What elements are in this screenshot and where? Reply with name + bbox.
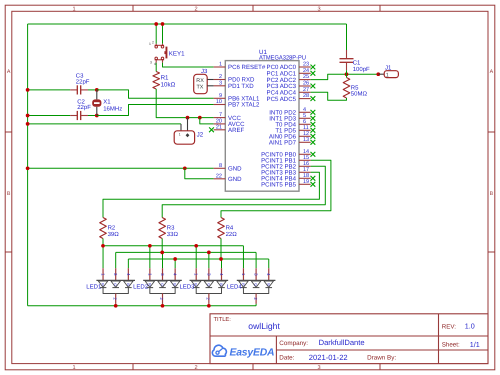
pin 14 PCINT0 PB0 of U1 (261, 149, 315, 159)
pin 8 GND of U1 (214, 163, 243, 173)
LED LED3 (RGB, common cathode) (190, 268, 229, 304)
svg-text:1/1: 1/1 (470, 340, 480, 349)
node junction GND on rail (26, 166, 30, 170)
wire GND tee to U1 pin22 (185, 168, 214, 179)
wire drop bus3 to LED4 pin4 (268, 259, 270, 268)
svg-text:27: 27 (303, 87, 309, 93)
svg-text:22: 22 (216, 173, 222, 179)
pin 1 PC6 RESET# of U1 (214, 62, 266, 72)
svg-text:LED1: LED1 (86, 284, 102, 291)
svg-text:2: 2 (159, 297, 164, 300)
wire drop bus3 to LED2 pin4 (174, 259, 176, 268)
svg-text:GND: GND (228, 176, 242, 183)
svg-text:LED3: LED3 (179, 284, 195, 291)
crystal X1 (92, 90, 101, 116)
svg-text:33Ω: 33Ω (167, 231, 179, 238)
wire GND bottom LED bus (28, 305, 257, 307)
wire GND rail to C2 (28, 115, 71, 117)
wire drop bus2 to LED4 pin3 (255, 252, 257, 268)
pin 27 PC4 ADC4 of U1 (267, 87, 311, 97)
svg-text:2: 2 (194, 7, 197, 13)
wire green bus R3 to LED pin3 drops (116, 251, 256, 253)
svg-text:G: G (160, 283, 164, 286)
svg-text:10: 10 (216, 99, 222, 105)
op-amp U1 ATMEGA328P-PU body (225, 61, 299, 192)
svg-text:24: 24 (303, 68, 309, 74)
svg-text:2: 2 (219, 74, 222, 80)
pin 28 PC5 ADC5 of U1 (267, 93, 316, 103)
pin 17 PCINT3 PB3 of U1 (261, 167, 311, 177)
wire red bus R2 to LED pin1 drops (103, 245, 243, 247)
connector J2 (174, 118, 194, 145)
svg-text:LED2: LED2 (133, 284, 149, 291)
node junction VCC / J2 pin2 (186, 116, 190, 120)
svg-text:TX: TX (197, 84, 204, 90)
pin 12 AIN0 PD6 of U1 (269, 131, 315, 141)
svg-text:2: 2 (112, 297, 117, 300)
svg-text:G: G (206, 283, 210, 286)
svg-text:X1: X1 (103, 99, 111, 106)
svg-text:C1: C1 (353, 60, 361, 67)
svg-text:Drawn By:: Drawn By: (367, 355, 396, 362)
node junction C3 on GND rail (26, 88, 30, 92)
LED LED1 (RGB, common cathode) (96, 268, 135, 304)
pin 20 AVCC of U1 (214, 119, 245, 129)
switch KEY1 (149, 40, 167, 66)
svg-text:1: 1 (179, 132, 181, 136)
svg-text:3: 3 (317, 365, 320, 371)
svg-text:owlLight: owlLight (248, 321, 280, 331)
svg-text:10kΩ: 10kΩ (161, 82, 176, 89)
resistor R5 (343, 74, 350, 98)
svg-text:13: 13 (303, 137, 309, 143)
svg-text:EasyEDA: EasyEDA (230, 348, 275, 359)
wire drop bus1 to LED1 pin1 (102, 246, 104, 268)
svg-text:J3: J3 (201, 68, 208, 75)
pin 10 PB7 XTAL2 of U1 (214, 99, 260, 109)
svg-text:ATMEGA328P-PU: ATMEGA328P-PU (259, 55, 306, 62)
svg-text:22pF: 22pF (76, 78, 90, 85)
svg-text:G: G (254, 283, 258, 286)
svg-text:1.0: 1.0 (465, 322, 475, 331)
svg-text:PCINT5 PB5: PCINT5 PB5 (261, 182, 296, 189)
pin 21 AREF of U1 (209, 124, 244, 134)
node junction KEY1 pin2 on GND rail (161, 22, 165, 26)
wire C2 to X1 bottom node (88, 115, 97, 117)
svg-text:1: 1 (149, 42, 151, 46)
svg-text:PC6 RESET#: PC6 RESET# (228, 64, 266, 71)
svg-text:25: 25 (303, 74, 309, 80)
node junction J2 GND on rail (26, 122, 30, 126)
svg-text:R3: R3 (167, 225, 175, 232)
title block (210, 314, 488, 364)
svg-text:26: 26 (303, 81, 309, 87)
svg-text:16MHz: 16MHz (103, 105, 122, 112)
pin 23 PC0 ADC0 of U1 (267, 62, 316, 72)
svg-text:50MΩ: 50MΩ (351, 91, 368, 98)
node junctions on bus2 (160, 251, 164, 255)
wire KEY1 pin2 to GND rail (162, 24, 164, 44)
svg-text:J1: J1 (385, 65, 392, 72)
svg-text:1: 1 (72, 365, 75, 371)
resistor R2 (100, 218, 107, 246)
wire X1 bottom node to U1 pin10 XTAL2 (97, 105, 214, 116)
capacitor C2 (70, 111, 88, 120)
node junction KEY1 pin1 on GND rail (154, 22, 158, 26)
node junction at J1 pin (376, 72, 380, 76)
svg-text:REV:: REV: (442, 323, 456, 330)
wire drop bus1 to LED4 pin1 (242, 246, 244, 268)
svg-text:1: 1 (386, 73, 389, 79)
svg-text:3: 3 (150, 61, 152, 65)
svg-text:2021-01-22: 2021-01-22 (309, 353, 348, 362)
svg-text:22pF: 22pF (77, 104, 91, 111)
node junctions on bottom GND bus (114, 304, 118, 308)
svg-text:GND: GND (228, 166, 242, 173)
node X1 bottom junction (95, 114, 99, 118)
svg-text:J2: J2 (197, 131, 204, 138)
svg-text:PC5 ADC5: PC5 ADC5 (267, 96, 297, 103)
EasyEDA logo (212, 345, 274, 358)
svg-text:39Ω: 39Ω (108, 231, 120, 238)
svg-text:AIN1 PD7: AIN1 PD7 (269, 140, 297, 147)
node X1 top junction (95, 88, 99, 92)
svg-text:1: 1 (219, 62, 222, 68)
svg-text:19: 19 (303, 179, 309, 185)
svg-text:22Ω: 22Ω (226, 231, 238, 238)
node junction GND pin8/pin22 tee (183, 166, 187, 170)
wire AVCC branch to U1 pin20 (200, 118, 214, 124)
resistor R4 (218, 218, 225, 260)
svg-text:G: G (113, 283, 117, 286)
wire C1 to node (346, 70, 348, 74)
wire LED1 pin2 to GND bus (115, 304, 117, 306)
node junction C1/R5 on ADC2 wire (345, 72, 349, 76)
wire R5 bottom to U1 pin27 ADC4 (311, 92, 347, 100)
wire R1 to VCC line (156, 89, 213, 118)
svg-text:7: 7 (219, 112, 222, 118)
pin 7 VCC of U1 (214, 112, 242, 122)
wire drop bus3 to LED1 pin4 (127, 259, 129, 268)
svg-text:Company:: Company: (279, 340, 308, 347)
connector J3 RX/TX (194, 74, 214, 93)
svg-text:AREF: AREF (228, 127, 245, 134)
svg-text:1: 1 (72, 7, 75, 13)
svg-text:2: 2 (152, 40, 154, 44)
LED LED2 (RGB, common cathode) (143, 268, 182, 304)
svg-text:B: B (7, 191, 11, 197)
wire GND left rail (27, 24, 29, 306)
svg-text:KEY1: KEY1 (169, 50, 185, 57)
node junctions on bus3 (173, 257, 177, 261)
wire X1 top node to U1 pin9 XTAL1 (97, 90, 214, 98)
wire GND rail to U1 pin8 (28, 167, 214, 169)
svg-text:2: 2 (194, 365, 197, 371)
svg-text:DarkfullDante: DarkfullDante (319, 338, 365, 347)
svg-text:2: 2 (253, 297, 258, 300)
svg-text:LED4: LED4 (227, 284, 243, 291)
wire blue bus R4 to LED pin4 drops (128, 258, 268, 260)
wire LED2 pin2 to GND bus (162, 304, 164, 306)
wire C3 to X1 top node (88, 89, 97, 91)
pin 24 PC1 ADC1 of U1 (267, 68, 316, 78)
wire drop bus2 to LED2 pin3 (162, 252, 164, 268)
capacitor C1 (340, 50, 354, 70)
pin 16 PCINT2 PB2 of U1 (261, 161, 311, 171)
connector J1 (378, 71, 398, 79)
pin 3 PD1 TXD of U1 (214, 80, 255, 90)
svg-text:PD1 TXD: PD1 TXD (228, 83, 254, 90)
svg-text:A: A (490, 69, 494, 75)
resistor R3 (159, 218, 166, 253)
wire drop bus3 to LED3 pin4 (221, 259, 223, 268)
wire U1 pin15 PB1 to R4 (221, 160, 331, 217)
wire LED3 pin2 to GND bus (208, 304, 210, 306)
svg-text:9: 9 (219, 93, 222, 99)
capacitor C3 (70, 85, 88, 94)
pin 9 PB6 XTAL1 of U1 (214, 93, 260, 103)
pin 26 PC3 ADC3 of U1 (267, 81, 316, 91)
svg-text:Date:: Date: (279, 355, 294, 362)
svg-text:2: 2 (206, 297, 211, 300)
wire KEY1 pin3 to R1 (155, 63, 157, 72)
pin 2 PD0 RXD of U1 (214, 74, 255, 84)
svg-text:100pF: 100pF (353, 66, 370, 73)
pin 19 PCINT5 PB5 of U1 (261, 179, 315, 189)
svg-text:21: 21 (216, 124, 222, 130)
svg-text:3: 3 (219, 80, 222, 86)
svg-text:8: 8 (219, 163, 222, 169)
pin 18 PCINT4 PB4 of U1 (261, 173, 315, 183)
wire KEY1 pin4 to U1 pin1 RESET (163, 63, 214, 67)
pin 11 T1 PD5 of U1 (275, 125, 315, 135)
node junction C2 on GND rail (26, 114, 30, 118)
node junction VCC / AVCC branch (198, 116, 202, 120)
pin 25 PC2 ADC2 of U1 (267, 74, 311, 84)
wire LED4 pin2 to GND bus (255, 304, 257, 306)
wire GND top rail (28, 23, 347, 25)
wire drop bus2 to LED1 pin3 (115, 252, 117, 268)
pin 6 T0 PD4 of U1 (275, 119, 315, 129)
wire drop bus2 to LED3 pin3 (208, 252, 210, 268)
svg-text:28: 28 (303, 93, 309, 99)
wire drop bus1 to LED3 pin1 (195, 246, 197, 268)
svg-text:TITLE:: TITLE: (214, 317, 232, 323)
wire U1 pin16 PB2 to R3 (162, 166, 325, 217)
wire GND rail to C1 top (346, 24, 348, 50)
svg-text:R2: R2 (108, 225, 116, 232)
svg-text:3: 3 (317, 7, 320, 13)
wire GND rail to C3 (28, 89, 71, 91)
svg-text:23: 23 (303, 62, 309, 68)
node junctions on bus1 (101, 244, 105, 248)
LED LED4 (RGB, common cathode) (237, 268, 276, 304)
resistor R1 (153, 72, 160, 90)
pin 4 INT0 PD2 of U1 (269, 107, 315, 117)
svg-text:B: B (490, 191, 494, 197)
wire KEY1 pin1 to GND rail (155, 24, 157, 44)
pin 13 AIN1 PD7 of U1 (269, 137, 315, 147)
wire U1 pin17 PB3 to R2 (103, 172, 319, 217)
wire GND rail to J2 pin1 (28, 123, 181, 125)
pin 15 PCINT1 PB1 of U1 (261, 155, 311, 165)
wire U1 pin25 ADC2 to C1/R5/J1 node (311, 74, 379, 79)
svg-text:Sheet:: Sheet: (442, 341, 460, 348)
svg-text:RX: RX (196, 78, 204, 84)
svg-text:R4: R4 (226, 225, 234, 232)
svg-text:R5: R5 (351, 84, 359, 91)
svg-text:A: A (7, 69, 11, 75)
pin 5 INT1 PD3 of U1 (269, 113, 315, 123)
svg-text:PB7 XTAL2: PB7 XTAL2 (228, 102, 260, 109)
wire drop bus1 to LED2 pin1 (149, 246, 151, 268)
pin 22 GND of U1 (214, 173, 243, 183)
